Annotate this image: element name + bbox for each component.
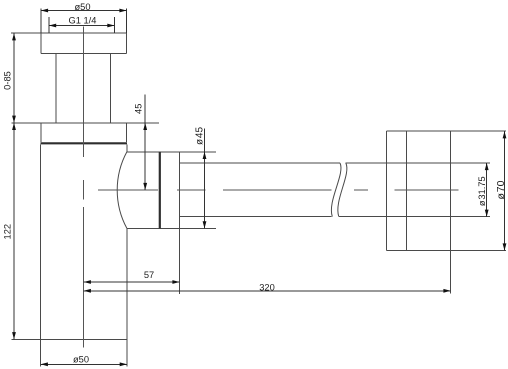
wall flange left edge: [385, 131, 387, 250]
elbow ball-joint arc: [117, 152, 127, 229]
svg-text:ø 31.75: ø 31.75: [477, 176, 487, 206]
horizontal centerline dash 5: [395, 189, 459, 191]
wall flange inner edge: [405, 131, 407, 250]
outlet tube top edge right segment with extension: [345, 162, 490, 164]
extension line G1 1/4 left: [48, 17, 50, 33]
dimension line 0-85: [13, 33, 15, 123]
vertical centerline middle dash: [83, 180, 85, 200]
arrowhead o31.75 bottom: [485, 210, 489, 217]
dimension line 320: [84, 290, 451, 292]
inlet flange right edge: [126, 33, 128, 53]
arrowhead 57 right: [172, 280, 179, 284]
arrowhead 122 top: [12, 123, 16, 130]
dimension line 122: [13, 123, 15, 339]
inlet pipe left wall: [55, 54, 57, 123]
dimension line G1 1/4: [49, 25, 115, 27]
extension line o50 top left: [40, 9, 42, 34]
arrowhead o50 top right: [119, 9, 126, 13]
arrowhead o31.75 top: [485, 163, 489, 170]
arrowhead 45 top: [143, 123, 147, 130]
arrowhead 0-85 top: [12, 33, 16, 40]
wall flange bottom edge with extension: [386, 250, 506, 252]
svg-text:ø50: ø50: [74, 2, 90, 12]
heavy joint line under body cap: [41, 142, 128, 144]
svg-text:122: 122: [2, 224, 12, 240]
arrowhead o70 top: [503, 131, 507, 138]
inlet flange left edge: [40, 33, 42, 53]
arrowhead 57 left: [84, 280, 91, 284]
svg-text:57: 57: [144, 270, 154, 280]
arrowhead o50 bottom left: [41, 362, 48, 366]
outlet tube bottom edge right segment with extension: [339, 216, 490, 218]
bottle body right wall upper segment: [126, 144, 128, 152]
dimension line o50 bottom: [41, 363, 127, 365]
arrowhead o45 bottom: [203, 221, 207, 228]
wall flange top edge with extension: [386, 130, 506, 132]
arrowhead o70 bottom: [503, 243, 507, 250]
bottle body right wall lower segment with extension below: [126, 228, 128, 366]
outlet stub top edge: [127, 151, 216, 153]
wall flange right edge with extension below: [450, 131, 452, 293]
outlet stub bottom edge: [127, 227, 216, 229]
bottle body left wall with extension below: [40, 144, 42, 366]
extension line o50 top right: [126, 9, 128, 34]
arrowhead 0-85 bottom: [12, 116, 16, 123]
pipe break squiggle left curve: [331, 163, 341, 217]
svg-text:ø 45: ø 45: [195, 127, 206, 146]
arrowhead o50 bottom right: [120, 362, 127, 366]
dimension line o45: [204, 129, 206, 229]
arrowhead G1 right: [107, 24, 114, 28]
vertical centerline upper dash: [83, 27, 85, 158]
svg-text:320: 320: [259, 282, 275, 292]
svg-text:G1 1/4: G1 1/4: [69, 15, 97, 25]
body cap left edge: [40, 123, 42, 142]
dimension line o31.75: [486, 163, 488, 217]
arrowhead 320 left: [84, 289, 91, 293]
horizontal centerline dash 3: [223, 189, 332, 191]
extension line G1 1/4 right: [114, 17, 116, 33]
outlet tube bottom edge left segment: [180, 216, 332, 218]
body cap top edge with extensions: [12, 122, 160, 124]
dimension line o50 top: [41, 10, 127, 12]
heavy nut left edge: [159, 152, 161, 229]
horizontal centerline dash 4: [354, 189, 368, 191]
arrowhead o50 top left: [41, 9, 48, 13]
svg-text:45: 45: [134, 104, 144, 114]
bottle body bottom edge with left extension: [11, 338, 127, 340]
inlet flange bottom edge: [41, 53, 127, 55]
arrowhead 320 right: [443, 289, 450, 293]
svg-text:ø50: ø50: [73, 354, 89, 364]
arrowhead 45 bottom: [143, 183, 147, 190]
pipe break squiggle right curve: [338, 163, 347, 217]
arrowhead 122 bottom: [12, 332, 16, 339]
dimension line o70: [504, 131, 506, 250]
outlet tube top edge left segment: [180, 162, 340, 164]
arrowhead o45 top: [203, 152, 207, 159]
dimension line 45: [144, 95, 146, 191]
arrowhead G1 left: [49, 24, 56, 28]
nut right edge with extension below: [179, 152, 181, 294]
inlet flange top edge with left extension: [11, 32, 126, 34]
dimension line 57: [84, 281, 180, 283]
svg-text:0-85: 0-85: [3, 71, 13, 90]
vertical centerline lower dash: [83, 207, 85, 348]
horizontal centerline dash 1: [98, 189, 158, 191]
inlet pipe right wall: [110, 54, 112, 123]
body cap right edge: [126, 123, 128, 142]
svg-text:ø 70: ø 70: [495, 180, 507, 199]
horizontal centerline dash 2: [177, 189, 206, 191]
